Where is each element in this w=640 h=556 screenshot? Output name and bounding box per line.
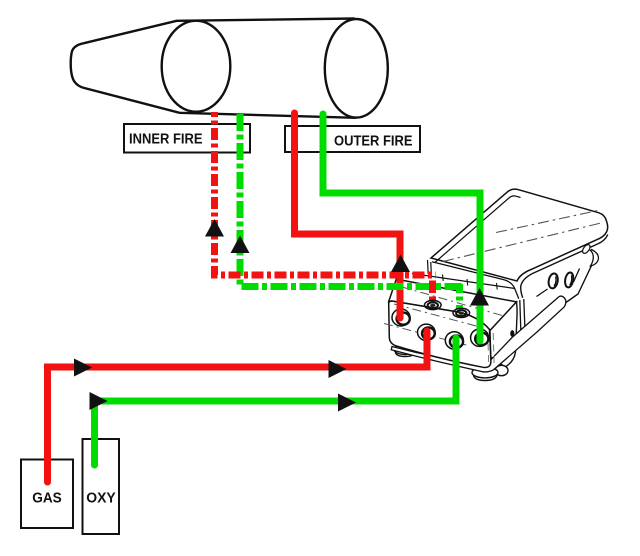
pedal treadle plate top face: [431, 189, 608, 281]
hose red dash-dot stub into port1: [429, 281, 436, 302]
hose red: gas supply to pedal hole2: [48, 331, 428, 482]
port hole 2 (front face, red inlet from gas): [418, 324, 436, 340]
hose green dashed: inner fire oxy, pedal port2 to torch: [240, 112, 462, 287]
treadle oval slot: [581, 243, 591, 254]
hose green solid: outer fire oxy, pedal hole4 to torch: [323, 114, 480, 341]
flow arrow up on red solid: [391, 255, 410, 273]
torch joint ring ellipse: [162, 21, 231, 112]
pedal base box right side face: [490, 302, 517, 367]
flow arrow right on oxy hose mid: [338, 394, 356, 412]
base box right side screw dot: [510, 330, 514, 337]
treadle lip inner line left edge: [435, 196, 521, 263]
port hole 1 (front face, red inlet from torch): [392, 309, 410, 326]
OXY source box: [83, 439, 120, 534]
torch body cylinder top line: [83, 19, 354, 44]
svg-text:INNER FIRE: INNER FIRE: [129, 131, 203, 147]
flow arrow right on oxy hose near tank: [90, 392, 108, 410]
port hole 3 (front face, green inlet from oxy): [445, 332, 463, 349]
svg-text:GAS: GAS: [32, 491, 62, 507]
pedal hinge knuckle sliver: [590, 250, 598, 267]
base box top face dash-dot lines: [402, 287, 504, 316]
pedal hinge bracket under-screw edge: [537, 269, 580, 297]
flow arrow right on gas hose near tank: [74, 359, 92, 377]
hose red solid: outer fire gas, pedal hole1 to torch: [295, 113, 401, 318]
svg-text:OUTER FIRE: OUTER FIRE: [334, 134, 413, 150]
base box foot front-left: [394, 345, 416, 357]
base box foot front-right: [472, 365, 508, 380]
base bottom rim plate wrapping corner and right side: [391, 296, 566, 372]
svg-text:OXY: OXY: [86, 491, 116, 507]
base box front face dash-dot line: [384, 324, 470, 347]
hose green: oxy supply to pedal hole3: [95, 338, 457, 465]
top port 1 (red dashed inlet, pedal top): [425, 300, 442, 309]
treadle thickness outer edge lower right: [521, 235, 608, 298]
pedal base box front face: [389, 301, 491, 367]
treadle dash-dot upper line: [496, 210, 601, 233]
pedal hinge screw right: [564, 272, 574, 288]
flow arrow up on red dash-dot: [205, 219, 224, 237]
pedal hinge screw left: [547, 273, 558, 289]
label box INNER FIRE: [124, 124, 250, 153]
treadle dash-dot centerline: [443, 223, 603, 262]
hose green dashed stub into port2: [456, 284, 463, 310]
port hole 4 (front face, green outlet to torch): [471, 329, 489, 346]
torch nozzle tip cap: [71, 43, 84, 87]
torch body cylinder bottom line: [82, 88, 356, 118]
pedal hinge bracket lower flange: [528, 266, 592, 330]
GAS source box: [21, 460, 73, 529]
flow arrow right on gas hose mid: [329, 360, 347, 378]
flow arrow up on green solid: [470, 288, 489, 306]
hinge barrel line under treadle: [412, 274, 515, 289]
hinge barrel ticks: [443, 275, 498, 290]
treadle corner fold lines: [428, 260, 432, 275]
flow arrow up on green dashed: [231, 236, 250, 254]
base box right face dash-dot line: [488, 332, 495, 366]
top port 2 (green dashed inlet, pedal top): [453, 308, 470, 317]
pedal hinge bracket left edge: [520, 299, 525, 331]
torch end cap ellipse: [325, 19, 388, 118]
pedal base box top face: [389, 279, 517, 330]
hose red dash-dot: inner fire gas, pedal port1 to torch: [215, 112, 437, 275]
treadle thickness lower left edge: [432, 262, 519, 299]
label box OUTER FIRE: [285, 126, 420, 152]
